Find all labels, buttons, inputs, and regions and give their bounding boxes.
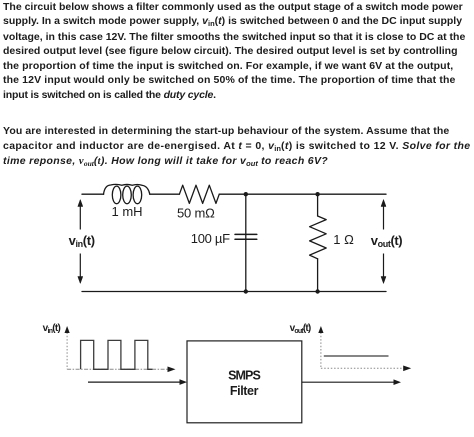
output axis vertical dotted <box>320 333 322 369</box>
arrow box to output <box>302 381 397 383</box>
node D junction dot <box>315 289 319 293</box>
svg-text:1 Ω: 1 Ω <box>333 232 354 247</box>
svg-text:vin(t): vin(t) <box>43 323 61 335</box>
capacitor C1 vertical wire <box>245 194 247 291</box>
output axis arrowhead right <box>403 366 411 372</box>
vin up arrow <box>79 206 81 230</box>
paragraph 1 <box>3 0 465 102</box>
svg-text:SMPS: SMPS <box>228 369 260 383</box>
inductor L1 loop 2 <box>123 186 132 204</box>
output axis horizontal dotted <box>321 367 407 369</box>
input axis arrowhead right <box>168 367 176 373</box>
square wave vin <box>81 340 153 369</box>
vout down arrow <box>383 254 385 278</box>
resistor R2 1 Ohm bottom wire <box>317 259 319 292</box>
inductor L1 loop 1 <box>112 186 121 204</box>
wire resistor to node A <box>219 193 246 195</box>
resistor R1 50mOhm zigzag <box>179 185 219 203</box>
capacitor C1 plates <box>235 234 257 239</box>
inductor L1 loop 3 <box>133 186 142 204</box>
svg-text:vout(t): vout(t) <box>371 233 402 249</box>
wire node B to right port <box>318 193 386 195</box>
node A junction dot <box>244 192 248 196</box>
wire top rail left segment <box>82 193 104 195</box>
paragraph 2 <box>3 124 470 169</box>
wire node A to node B <box>246 193 318 195</box>
svg-text:50 mΩ: 50 mΩ <box>177 205 215 220</box>
resistor R2 1 Ohm zigzag <box>310 216 327 259</box>
node B junction dot <box>315 192 319 196</box>
output axis arrowhead up <box>318 326 323 333</box>
svg-text:Filter: Filter <box>230 384 259 398</box>
output DC level line <box>324 355 389 357</box>
vout up arrow <box>383 206 385 230</box>
svg-text:100 µF: 100 µF <box>191 231 230 246</box>
wire bottom rail <box>82 291 386 293</box>
node C junction dot <box>244 289 248 293</box>
input axis vertical dotted <box>66 333 68 370</box>
inductor L1 humps <box>104 184 150 194</box>
SMPS filter box <box>187 341 302 423</box>
arrow input to box <box>88 381 183 383</box>
vin down arrow <box>79 254 81 278</box>
resistor R2 1 Ohm top wire <box>317 194 319 216</box>
wire between inductor and resistor <box>150 193 180 195</box>
svg-text:vin(t): vin(t) <box>69 233 95 249</box>
input axis arrowhead up <box>65 326 70 333</box>
svg-text:vout(t): vout(t) <box>290 323 311 335</box>
input axis horizontal dashed <box>67 368 170 370</box>
svg-text:1 mH: 1 mH <box>112 204 143 219</box>
